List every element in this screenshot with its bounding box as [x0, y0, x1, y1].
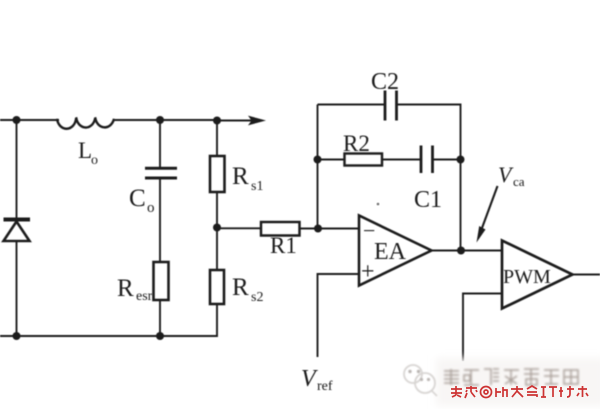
wire: inverting node to EA minus input	[318, 228, 359, 230]
wire: node to R2	[318, 159, 345, 161]
svg-text:C1: C1	[414, 187, 442, 213]
resistor R1	[261, 222, 300, 236]
wire: Co branch top	[159, 120, 161, 167]
wire: Rs1 branch top	[216, 121, 218, 157]
wire: mid node to Rs2	[216, 228, 218, 271]
wire: C2 top rail right	[397, 105, 461, 160]
svg-text:R2: R2	[343, 131, 370, 156]
svg-text:ref: ref	[317, 379, 333, 394]
node: inverting input node	[314, 225, 322, 233]
node: bottom Resr junction	[156, 332, 164, 340]
svg-text:R1: R1	[270, 233, 297, 258]
label C2	[371, 69, 399, 95]
node: bottom diode junction	[13, 332, 21, 340]
svg-text:V: V	[301, 366, 318, 392]
svg-text:o: o	[91, 153, 98, 168]
svg-text:R: R	[117, 275, 134, 302]
wire: mid node to R1	[217, 227, 261, 229]
label R1	[270, 233, 297, 258]
svg-text:s1: s1	[251, 179, 263, 194]
label EA	[374, 239, 407, 265]
svg-text:PWM: PWM	[503, 266, 551, 288]
wire: Resr to bottom rail	[159, 300, 161, 336]
svg-text:o: o	[147, 200, 155, 216]
resistor R2	[345, 154, 383, 166]
resistor Rs2	[210, 270, 224, 304]
svg-text:s2: s2	[251, 290, 263, 305]
label Lo	[78, 138, 98, 168]
label Resr	[117, 275, 153, 304]
svg-text:C: C	[129, 185, 146, 212]
wire: Co to Resr	[159, 178, 161, 262]
label Co	[129, 185, 155, 216]
label C1	[414, 187, 442, 213]
label EA plus	[361, 259, 375, 285]
label Rs2	[232, 274, 263, 305]
label EA minus	[363, 218, 375, 243]
svg-text:C2: C2	[371, 69, 399, 95]
node: Vca output node	[457, 247, 465, 255]
comparator PWM	[502, 241, 573, 309]
svg-text:EA: EA	[374, 239, 407, 265]
label R2	[343, 131, 370, 156]
wire: Rs1 to mid node	[216, 192, 218, 228]
label Vca	[498, 162, 525, 189]
node: Co branch junction on top rail	[156, 116, 164, 124]
wire: R2 to C1	[382, 159, 421, 161]
capacitor Co	[145, 168, 177, 178]
label Rs1	[232, 163, 263, 194]
resistor Resr	[154, 262, 169, 300]
resistor Rs1	[210, 156, 225, 192]
wire: bottom rail	[0, 304, 217, 336]
svg-text:ca: ca	[513, 174, 525, 189]
wire: EA plus input	[318, 274, 360, 357]
node: input node at left	[13, 116, 21, 124]
node: divider mid node	[213, 224, 221, 232]
inductor Lo	[57, 117, 114, 128]
wire: right vertical down to output	[460, 160, 462, 251]
label PWM	[503, 266, 551, 288]
wire: feedback left vertical	[317, 105, 319, 229]
watermark grey text	[444, 369, 578, 385]
wire: top rail left segment	[0, 119, 59, 121]
svg-text:R: R	[232, 274, 249, 301]
svg-text:R: R	[232, 163, 249, 190]
stray scan speck	[377, 203, 380, 206]
node: R2/C1 left junction	[314, 156, 322, 164]
capacitor C2	[385, 91, 397, 121]
op-amp EA	[359, 216, 432, 286]
watermark logo	[404, 365, 437, 396]
watermark background wash	[436, 358, 600, 406]
wire: left branch lower	[16, 241, 18, 336]
node: Rs1 branch junction on top rail	[213, 117, 221, 125]
wire: R1 to inverting node	[300, 228, 319, 230]
wire: PWM ramp input	[463, 294, 502, 362]
wire: left branch upper	[16, 120, 18, 219]
wire: top rail middle segment	[114, 119, 217, 121]
wire: EA output	[432, 250, 503, 252]
capacitor C1	[421, 146, 433, 174]
svg-text:V: V	[498, 162, 514, 187]
svg-text:esr: esr	[136, 289, 153, 304]
wire: PWM output	[573, 274, 600, 276]
wire: C1 to right vertical	[433, 159, 461, 161]
wire: output arrow to the right	[217, 120, 253, 122]
node: feedback right junction	[457, 156, 465, 164]
wire: Vca pointer arrow	[482, 186, 498, 228]
label Vref	[301, 366, 333, 394]
wire: C2 top rail left	[318, 104, 386, 106]
svg-text:L: L	[78, 138, 92, 163]
watermark red text	[451, 386, 588, 398]
diode D1	[4, 220, 31, 242]
svg-text:+: +	[361, 259, 375, 285]
